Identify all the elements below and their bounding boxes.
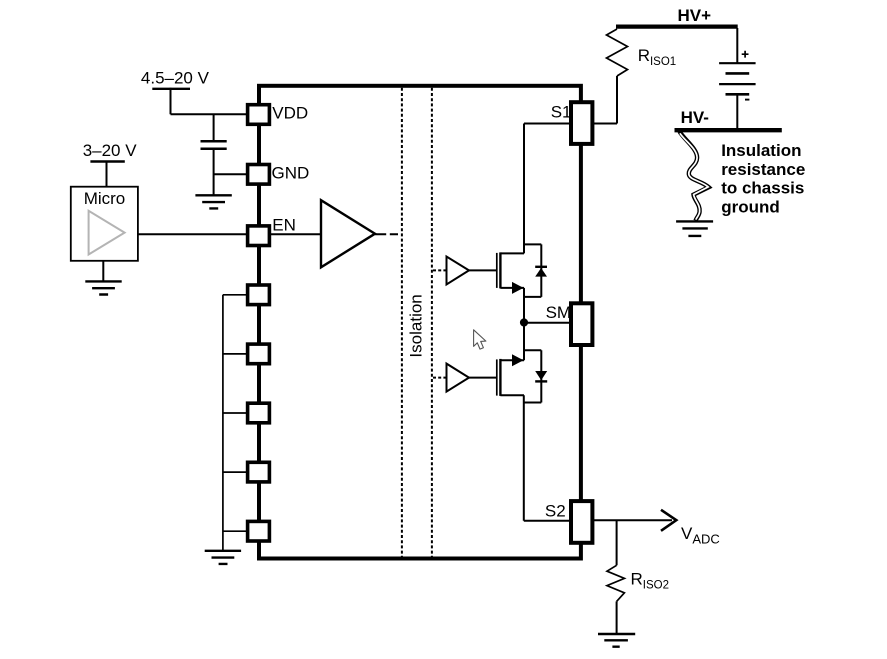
svg-text:Insulation: Insulation bbox=[721, 141, 801, 160]
svg-text:RISO1: RISO1 bbox=[638, 46, 677, 68]
svg-text:resistance: resistance bbox=[721, 160, 805, 179]
svg-text:RISO2: RISO2 bbox=[631, 569, 670, 591]
svg-text:S1: S1 bbox=[551, 102, 572, 121]
svg-text:EN: EN bbox=[272, 215, 296, 234]
svg-text:VADC: VADC bbox=[681, 524, 720, 547]
svg-text:ground: ground bbox=[721, 198, 780, 217]
svg-text:HV+: HV+ bbox=[678, 6, 712, 25]
svg-text:S2: S2 bbox=[545, 501, 566, 520]
svg-text:4.5–20 V: 4.5–20 V bbox=[141, 69, 210, 88]
svg-text:SM: SM bbox=[546, 303, 572, 322]
svg-text:HV-: HV- bbox=[681, 108, 709, 127]
svg-text:to chassis: to chassis bbox=[721, 179, 804, 198]
svg-text:GND: GND bbox=[272, 163, 310, 182]
svg-text:3–20 V: 3–20 V bbox=[83, 141, 138, 160]
svg-text:Isolation: Isolation bbox=[407, 294, 426, 357]
svg-text:Micro: Micro bbox=[84, 189, 126, 208]
svg-text:VDD: VDD bbox=[272, 104, 308, 123]
